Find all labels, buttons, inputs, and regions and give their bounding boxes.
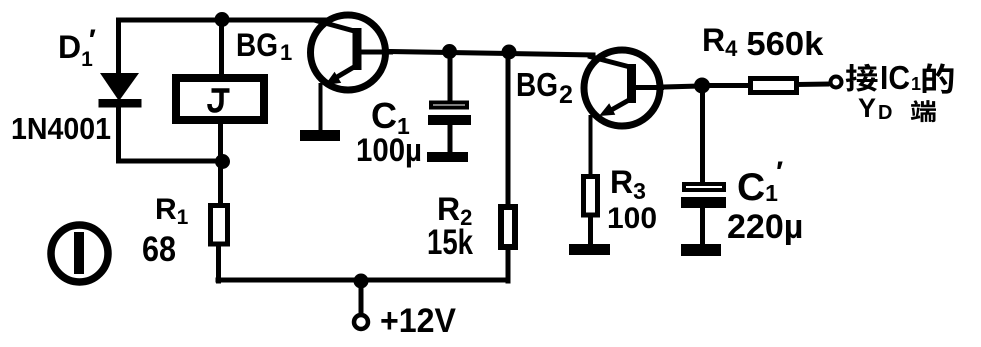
- ground at C1: [427, 152, 468, 162]
- wire BG1 emitter to ground: [319, 85, 323, 131]
- node mid rail at C1: [442, 44, 457, 59]
- diode D1': [99, 73, 142, 108]
- wire node to R4: [702, 83, 749, 88]
- wire R3 bottom to ground: [588, 216, 593, 245]
- label BG2: [516, 66, 573, 109]
- node at top rail and relay J: [215, 12, 230, 27]
- wire R4 to output terminal: [798, 82, 827, 88]
- value label 68: [142, 230, 176, 269]
- ground at C1': [681, 244, 721, 256]
- figure number circled 1: [51, 225, 108, 282]
- value label 220µ: [727, 208, 803, 246]
- wire C1 top from mid rail: [448, 52, 453, 101]
- label R2: [437, 191, 472, 230]
- wire C1' bottom stub to ground: [700, 207, 705, 246]
- wire BG2 base to node: [663, 86, 702, 87]
- svg-text:1: 1: [911, 74, 921, 94]
- transistor BG2: [584, 50, 664, 126]
- node bottom-left diode/relay junction: [215, 154, 230, 169]
- svg-text:220µ: 220µ: [727, 208, 803, 246]
- svg-text:R4560k: R4560k: [702, 22, 824, 62]
- wire node down to C1': [700, 86, 705, 183]
- label 接IC1的 (connect to IC1): [846, 59, 954, 96]
- ground at R3: [569, 244, 610, 255]
- svg-text:68: 68: [142, 230, 176, 269]
- resistor R4: [751, 79, 797, 93]
- wire mid rail BG1 base to BG2 collector: [391, 52, 593, 56]
- relay J: [176, 78, 264, 120]
- svg-text:100: 100: [607, 202, 657, 235]
- svg-text:IC: IC: [880, 59, 910, 96]
- wire BG2 emitter down to R3: [589, 117, 593, 176]
- label R4 560k: [702, 22, 824, 62]
- transistor BG1: [311, 15, 394, 90]
- node mid rail at R2: [502, 45, 517, 60]
- svg-text:+12V: +12V: [380, 302, 456, 340]
- capacitor C1': [681, 184, 726, 208]
- value label 15k: [427, 223, 473, 262]
- node supply rail at +12V: [354, 274, 369, 289]
- label YD 端 (YD terminal): [858, 93, 936, 124]
- label R3: [610, 164, 646, 204]
- resistor R3: [584, 177, 598, 216]
- terminal output to IC1 YD: [831, 77, 842, 88]
- svg-text:100µ: 100µ: [356, 132, 422, 168]
- label C1': [737, 156, 783, 209]
- value label 1N4001: [11, 111, 111, 146]
- label R1: [155, 193, 189, 229]
- wire +12V stub: [359, 280, 364, 313]
- wire J box top from rail: [219, 20, 224, 79]
- terminal +12V: [354, 302, 456, 340]
- value label 100µ: [356, 132, 422, 168]
- value label 100: [607, 202, 657, 235]
- wire R2 bottom to supply rail: [506, 251, 511, 281]
- node BG2 base / R4 / C1': [694, 78, 710, 94]
- svg-text:1N4001: 1N4001: [11, 111, 111, 146]
- label C1: [371, 95, 410, 139]
- wire bottom supply rail: [218, 278, 508, 283]
- wire diode cathode down to bottom-left corner: [119, 104, 225, 161]
- wire R2 top from mid rail: [506, 53, 511, 207]
- label D1': [58, 24, 96, 71]
- wire R1 bottom to supply rail: [216, 244, 221, 281]
- svg-text:D1′: D1′: [58, 24, 96, 71]
- ground at BG1 emitter: [300, 130, 340, 141]
- wire top rail from D1 branch to BG1 collector: [119, 20, 331, 77]
- svg-text:15k: 15k: [427, 223, 473, 262]
- wire C1 bottom stub to ground: [448, 124, 453, 154]
- resistor R2: [501, 207, 515, 247]
- wire J box bottom down to R1 top: [218, 121, 223, 203]
- label BG1: [236, 27, 292, 65]
- capacitor C1: [428, 103, 471, 126]
- resistor R1: [211, 206, 228, 245]
